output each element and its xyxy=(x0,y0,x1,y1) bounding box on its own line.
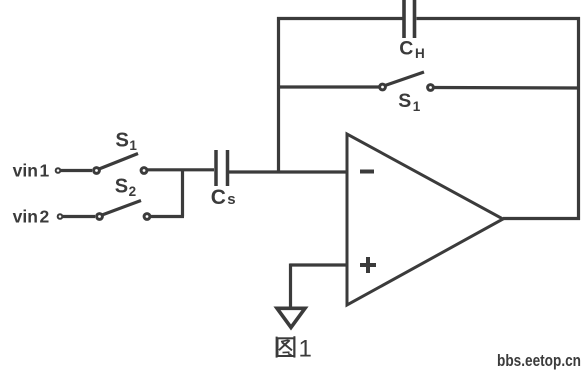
node A vertical wire joining S2 branch to S1 branch xyxy=(181,169,184,217)
switch S1 arm xyxy=(99,154,138,170)
switch S2 contact xyxy=(144,214,150,220)
label S1 feedback xyxy=(398,90,421,114)
label CS xyxy=(211,186,236,209)
capacitor CH left plate xyxy=(402,0,406,38)
capacitor CS right plate xyxy=(226,150,230,186)
wire vin1 to S1 pivot xyxy=(61,169,92,172)
svg-text:C: C xyxy=(211,186,226,209)
svg-text:vin: vin xyxy=(13,161,38,181)
watermark bbs.eetop.cn xyxy=(497,352,581,370)
switch S1 input pivot xyxy=(94,168,100,174)
label CH xyxy=(399,38,425,61)
vin2 terminal xyxy=(58,214,63,219)
label figure 1 (drawn CJK glyph tu) xyxy=(277,336,295,357)
feedback top wire right of CH xyxy=(417,17,581,20)
op-amp U1 xyxy=(347,134,503,305)
svg-text:bbs.eetop.cn: bbs.eetop.cn xyxy=(497,352,581,370)
label vin1 xyxy=(13,161,50,181)
svg-text:C: C xyxy=(399,38,413,60)
ground drop wire xyxy=(289,264,292,310)
capacitor CS left plate xyxy=(214,150,218,186)
switch S2 arm xyxy=(102,201,141,216)
feedback switch S1 contact xyxy=(428,85,434,91)
svg-text:S: S xyxy=(115,130,129,152)
feedback middle wire to S1 pivot xyxy=(277,85,379,88)
wire S2 contact to node A xyxy=(151,215,185,218)
label figure 1 digit xyxy=(299,335,312,362)
op-amp inverting input minus sign xyxy=(360,170,374,174)
feedback middle wire from S1 contact to right vertical xyxy=(434,86,580,90)
ground xyxy=(277,308,305,327)
label vin2 xyxy=(13,207,50,227)
svg-text:H: H xyxy=(415,46,425,61)
output wire op-amp to right vertical xyxy=(503,217,580,220)
switch S2 pivot xyxy=(97,214,103,220)
feedback left vertical wire xyxy=(277,17,280,172)
svg-text:S: S xyxy=(398,90,411,112)
svg-text:1: 1 xyxy=(413,99,421,114)
svg-text:2: 2 xyxy=(129,184,137,199)
feedback switch S1 arm xyxy=(385,72,424,86)
svg-text:1: 1 xyxy=(40,161,50,181)
label S2 xyxy=(115,175,136,199)
capacitor CH right plate xyxy=(413,0,417,38)
wire op-amp non-inverting input to ground xyxy=(290,263,347,266)
feedback switch S1 pivot xyxy=(380,84,386,90)
svg-text:2: 2 xyxy=(40,207,50,227)
op-amp non-inverting input plus sign xyxy=(360,257,376,273)
svg-text:vin: vin xyxy=(13,207,38,227)
vin1 terminal xyxy=(56,168,61,173)
wire CS to op-amp inverting input xyxy=(229,170,347,173)
switch S1 contact xyxy=(141,168,147,174)
svg-text:s: s xyxy=(227,191,235,208)
svg-text:S: S xyxy=(115,175,128,197)
feedback top wire left of CH xyxy=(277,17,404,20)
svg-text:1: 1 xyxy=(299,335,312,362)
label S1 xyxy=(115,130,137,154)
wire vin2 to S2 pivot xyxy=(63,215,95,218)
svg-text:1: 1 xyxy=(129,138,137,153)
wire S1 contact to capacitor CS xyxy=(148,168,215,171)
feedback right vertical wire xyxy=(577,17,580,220)
